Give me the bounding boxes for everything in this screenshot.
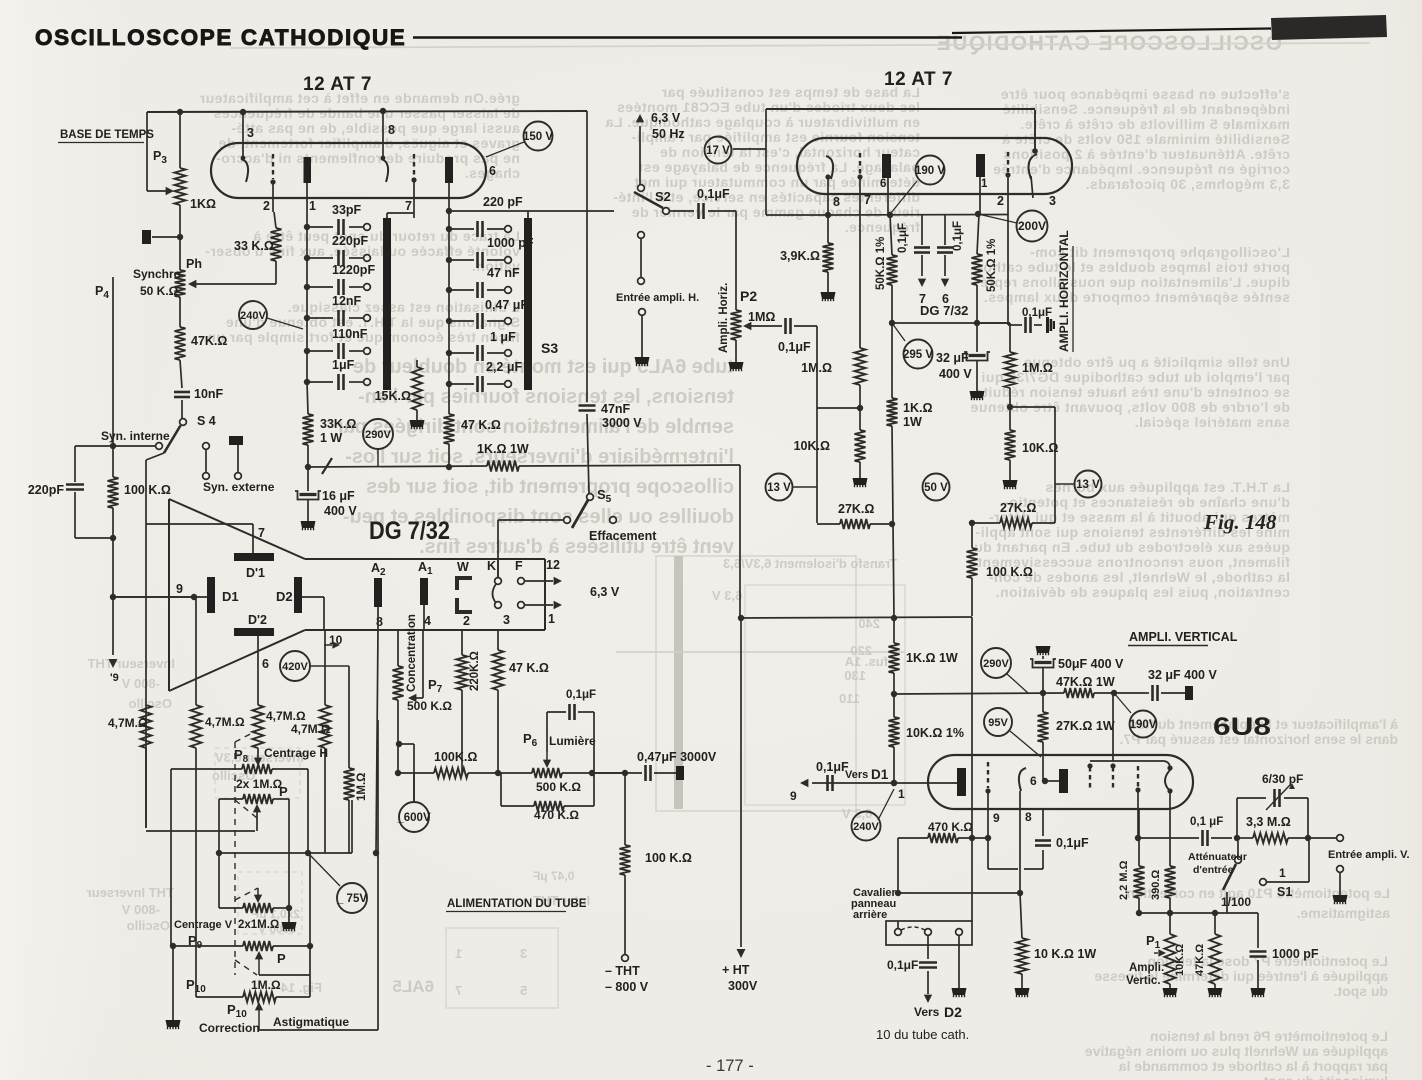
svg-text:DG 7/32: DG 7/32 xyxy=(369,517,450,545)
svg-text:Oscillo: Oscillo xyxy=(127,918,170,933)
svg-text:50K.Ω 1%: 50K.Ω 1% xyxy=(986,239,998,292)
svg-text:1: 1 xyxy=(455,946,462,961)
svg-text:240V: 240V xyxy=(240,310,266,322)
svg-text:3,3 mégohms, 30 picofarads.: 3,3 mégohms, 30 picofarads. xyxy=(1085,176,1290,192)
svg-text:2x 1M.Ω: 2x 1M.Ω xyxy=(236,777,283,791)
svg-text:1W: 1W xyxy=(903,415,922,429)
svg-text:AMPLI. HORIZONTAL: AMPLI. HORIZONTAL xyxy=(1057,230,1071,352)
svg-text:3,9K.Ω: 3,9K.Ω xyxy=(780,249,820,263)
svg-text:0,1μF: 0,1μF xyxy=(697,187,730,201)
svg-text:2: 2 xyxy=(263,199,270,213)
svg-text:4,7M.Ω: 4,7M.Ω xyxy=(266,709,306,723)
svg-text:400 V: 400 V xyxy=(939,367,972,381)
svg-text:13 V: 13 V xyxy=(767,482,791,494)
svg-text:Le potentiomètre P6 rend l: Le potentiomètre P6 rend la tension xyxy=(1150,1028,1388,1044)
svg-text:240V: 240V xyxy=(853,821,879,833)
svg-text:300V: 300V xyxy=(728,979,758,993)
svg-text:cilloscope proprement dit, soi: cilloscope proprement dit, soit sur des xyxy=(366,476,734,498)
svg-text:D'2: D'2 xyxy=(248,613,267,627)
svg-text:-800 V: -800 V xyxy=(121,676,160,691)
svg-text:S1: S1 xyxy=(1277,885,1292,899)
svg-text:0,1μF: 0,1μF xyxy=(566,689,596,701)
svg-text:1μF: 1μF xyxy=(332,358,355,372)
svg-text:6: 6 xyxy=(489,164,496,178)
svg-text:La base de temps est constitué: La base de temps est constituée par xyxy=(661,84,920,100)
svg-text:100 K.Ω: 100 K.Ω xyxy=(124,483,171,497)
svg-text:Syn. interne: Syn. interne xyxy=(101,429,170,443)
svg-text:-800 V: -800 V xyxy=(121,902,160,917)
svg-text:1000 pF: 1000 pF xyxy=(1272,947,1319,961)
svg-text:1220pF: 1220pF xyxy=(332,263,375,277)
svg-text:'9: '9 xyxy=(110,672,119,684)
svg-text:Lumière: Lumière xyxy=(549,734,596,748)
svg-text:+ HT: + HT xyxy=(722,963,750,977)
svg-text:33K.Ω: 33K.Ω xyxy=(320,417,356,431)
svg-text:Vers: Vers xyxy=(845,769,868,781)
svg-text:47 K.Ω: 47 K.Ω xyxy=(509,661,549,675)
svg-text:100K.Ω: 100K.Ω xyxy=(434,750,477,764)
svg-text:ALIMENTATION DU TUBE: ALIMENTATION DU TUBE xyxy=(447,898,587,910)
svg-text:astigmatisme.: astigmatisme. xyxy=(1297,905,1390,921)
svg-text:Astigmatique: Astigmatique xyxy=(273,1015,349,1029)
svg-text:_600V: _600V xyxy=(396,812,431,824)
svg-text:12: 12 xyxy=(546,558,560,572)
svg-text:2,2 μF: 2,2 μF xyxy=(486,360,522,374)
svg-text:corrigé en fréquence. Impéd: corrigé en fréquence. Impédance d'entrée xyxy=(993,161,1290,177)
svg-text:15K.Ω: 15K.Ω xyxy=(375,389,411,403)
svg-text:190 V: 190 V xyxy=(915,165,945,177)
svg-text:110nF: 110nF xyxy=(332,327,368,341)
svg-text:D'1: D'1 xyxy=(246,566,265,580)
svg-text:Centrage V: Centrage V xyxy=(174,919,233,931)
svg-text:du spot.: du spot. xyxy=(1334,983,1388,999)
svg-text:290V: 290V xyxy=(365,429,391,441)
svg-text:6/30 pF: 6/30 pF xyxy=(1262,772,1303,786)
svg-text:220 pF: 220 pF xyxy=(483,195,523,209)
svg-text:Effacement: Effacement xyxy=(589,529,657,543)
svg-text:cateur horizontal, c'est la: cateur horizontal, c'est la tension de xyxy=(660,144,920,160)
svg-text:3: 3 xyxy=(247,126,254,140)
svg-text:- 177 -: - 177 - xyxy=(706,1057,754,1075)
svg-text:luminosité du spot.: luminosité du spot. xyxy=(1260,1073,1388,1080)
svg-text:crête. Atténuateur d'entrée: crête. Atténuateur d'entrée à 2 position… xyxy=(1003,146,1290,162)
svg-text:sans matériel spécial.: sans matériel spécial. xyxy=(1134,414,1290,430)
svg-text:130: 130 xyxy=(844,668,866,683)
svg-text:1: 1 xyxy=(981,178,988,190)
svg-text:27K.Ω: 27K.Ω xyxy=(1000,501,1036,515)
svg-text:1 μF: 1 μF xyxy=(490,330,516,344)
svg-text:13 V: 13 V xyxy=(1076,479,1100,491)
svg-text:_ 75V: _ 75V xyxy=(336,893,367,905)
svg-text:470 K.Ω: 470 K.Ω xyxy=(534,808,579,822)
svg-text:Ph: Ph xyxy=(186,257,202,271)
svg-text:d'entrée: d'entrée xyxy=(1193,864,1234,876)
svg-text:7: 7 xyxy=(455,983,462,998)
svg-text:420V: 420V xyxy=(282,661,308,673)
svg-text:220K.Ω: 220K.Ω xyxy=(469,651,481,691)
svg-text:47nF: 47nF xyxy=(601,402,631,416)
svg-text:1K.Ω: 1K.Ω xyxy=(903,401,932,415)
svg-text:1M.Ω: 1M.Ω xyxy=(356,773,368,801)
svg-text:ne pas produire de ronflements: ne pas produire de ronflements ni d'accr… xyxy=(216,150,520,166)
svg-text:1M.Ω: 1M.Ω xyxy=(1022,361,1053,375)
svg-text:4,7M.Ω: 4,7M.Ω xyxy=(108,716,148,730)
svg-text:10 K.Ω 1W: 10 K.Ω 1W xyxy=(1034,947,1096,961)
svg-text:100 K.Ω: 100 K.Ω xyxy=(645,851,692,865)
svg-text:150 V: 150 V xyxy=(523,131,553,143)
svg-text:1MΩ: 1MΩ xyxy=(748,310,775,324)
svg-text:200V: 200V xyxy=(1018,219,1046,233)
svg-text:10K.Ω: 10K.Ω xyxy=(794,439,830,453)
svg-text:S 4: S 4 xyxy=(197,414,216,428)
svg-text:de laisser passer une bande de: de laisser passer une bande de fréquence… xyxy=(213,105,520,121)
svg-text:D1: D1 xyxy=(222,589,239,604)
svg-text:Correction: Correction xyxy=(199,1021,260,1035)
svg-text:centration, puis les plaque: centration, puis les plaques de déviatio… xyxy=(995,584,1290,600)
svg-text:OSCILLOSCOPE CATHODIQUE: OSCILLOSCOPE CATHODIQUE xyxy=(35,25,406,50)
svg-text:vent être utilisées à d'autres: vent être utilisées à d'autres fins. xyxy=(419,536,734,558)
svg-text:2x1M.Ω: 2x1M.Ω xyxy=(238,919,279,931)
svg-text:1KΩ: 1KΩ xyxy=(190,197,216,211)
svg-text:0,1μF: 0,1μF xyxy=(897,223,909,253)
svg-text:la cathode, le Wehnelt, le: la cathode, le Wehnelt, les anodes de co… xyxy=(988,569,1290,585)
svg-text:BASE DE TEMPS: BASE DE TEMPS xyxy=(60,129,154,141)
svg-text:appliquée au Wehnelt plus ou m: appliquée au Wehnelt plus ou moins négat… xyxy=(1085,1043,1388,1059)
svg-text:W: W xyxy=(457,560,469,574)
svg-text:290V: 290V xyxy=(983,658,1009,670)
svg-text:110: 110 xyxy=(839,691,860,706)
svg-text:32 μF: 32 μF xyxy=(936,351,969,365)
svg-text:47K.Ω 1W: 47K.Ω 1W xyxy=(1056,675,1115,689)
svg-text:8: 8 xyxy=(833,195,840,209)
svg-text:6U8: 6U8 xyxy=(1213,713,1271,741)
svg-text:27K.Ω 1W: 27K.Ω 1W xyxy=(1056,719,1115,733)
svg-text:arrière: arrière xyxy=(853,909,887,921)
svg-text:4,7M.Ω: 4,7M.Ω xyxy=(205,715,245,729)
svg-text:6: 6 xyxy=(1030,774,1037,788)
svg-text:Atténuateur: Atténuateur xyxy=(1188,851,1247,863)
svg-text:Syn. externe: Syn. externe xyxy=(203,480,275,494)
svg-text:50μF 400 V: 50μF 400 V xyxy=(1058,657,1124,671)
svg-text:100 K.Ω: 100 K.Ω xyxy=(986,565,1033,579)
svg-text:balayage. La fréquence de: balayage. La fréquence de balayage est xyxy=(638,159,920,175)
svg-text:Fig. 14: Fig. 14 xyxy=(280,980,322,995)
svg-text:33pF: 33pF xyxy=(332,203,362,217)
svg-text:0,1μF: 0,1μF xyxy=(952,221,964,251)
svg-text:tube 6AL5 qui est monté en dou: tube 6AL5 qui est monté en doubleur de xyxy=(353,356,734,378)
svg-text:47K.Ω: 47K.Ω xyxy=(191,334,227,348)
svg-text:Entrée ampli. V.: Entrée ampli. V. xyxy=(1328,849,1410,861)
svg-text:6AL5: 6AL5 xyxy=(392,977,434,996)
svg-text:17 V: 17 V xyxy=(706,145,730,157)
svg-text:2: 2 xyxy=(997,194,1004,208)
svg-text:9: 9 xyxy=(993,811,1000,825)
svg-text:3: 3 xyxy=(520,946,527,961)
svg-text:0,47 μF: 0,47 μF xyxy=(533,869,574,883)
svg-text:6: 6 xyxy=(262,657,269,671)
svg-text:P: P xyxy=(279,784,288,799)
svg-text:par rapport à la cathode: par rapport à la cathode et commande la xyxy=(1119,1058,1388,1074)
svg-text:10K.Ω 1%: 10K.Ω 1% xyxy=(906,726,964,740)
svg-text:Inverseur THT: Inverseur THT xyxy=(88,656,175,671)
svg-text:500 K.Ω: 500 K.Ω xyxy=(536,780,581,794)
svg-text:0,1μF: 0,1μF xyxy=(1056,836,1089,850)
svg-text:4: 4 xyxy=(424,614,431,628)
svg-text:5: 5 xyxy=(520,983,527,998)
svg-text:10K.Ω: 10K.Ω xyxy=(1022,441,1058,455)
svg-text:4,7M.Ω: 4,7M.Ω xyxy=(291,722,331,736)
svg-text:1: 1 xyxy=(1279,866,1286,880)
svg-text:6: 6 xyxy=(880,178,886,190)
svg-text:12 AT 7: 12 AT 7 xyxy=(303,74,372,95)
svg-text:8: 8 xyxy=(376,615,383,629)
svg-text:12 AT 7: 12 AT 7 xyxy=(884,69,953,90)
svg-text:Signalons que la T.H.T. est ob: Signalons que la T.H.T. est obtenue d'un… xyxy=(225,314,520,330)
svg-text:6,3 V: 6,3 V xyxy=(712,588,743,603)
svg-text:0,1μF: 0,1μF xyxy=(887,958,918,972)
svg-text:Vertic.: Vertic. xyxy=(1126,975,1161,987)
svg-text:Centrage H: Centrage H xyxy=(264,746,328,760)
svg-text:P: P xyxy=(277,951,286,966)
svg-text:190V: 190V xyxy=(1130,719,1157,731)
svg-text:95V: 95V xyxy=(988,717,1008,729)
svg-text:D1: D1 xyxy=(871,767,889,782)
svg-text:porte trois lampes doubles et: porte trois lampes doubles et le tube ca… xyxy=(978,259,1290,275)
svg-text:470 K.Ω: 470 K.Ω xyxy=(928,820,973,834)
svg-text:500 K.Ω: 500 K.Ω xyxy=(407,699,452,713)
svg-text:Une telle simplicité a pu être: Une telle simplicité a pu être obtenue xyxy=(1024,354,1290,370)
svg-text:S3: S3 xyxy=(541,340,558,356)
svg-text:0,1 μF: 0,1 μF xyxy=(1190,816,1223,828)
svg-text:d'une chaîne de résistances: d'une chaîne de résistances et potentio- xyxy=(1004,494,1290,510)
svg-text:50 K.Ω: 50 K.Ω xyxy=(140,284,179,298)
svg-text:32 μF 400 V: 32 μF 400 V xyxy=(1148,668,1217,682)
svg-text:aussi large que possible, de n: aussi large que possible, de ne pas atté… xyxy=(231,120,520,136)
svg-text:Fig. 148: Fig. 148 xyxy=(1203,510,1277,534)
svg-text:220pF: 220pF xyxy=(332,234,368,248)
svg-text:semble de l'alimentation sont: semble de l'alimentation sont dirigées p… xyxy=(336,416,734,438)
svg-text:0,47μF 3000V: 0,47μF 3000V xyxy=(637,750,717,764)
svg-text:3: 3 xyxy=(503,613,510,627)
svg-text:2: 2 xyxy=(463,614,470,628)
svg-text:sentée séparément comporte: sentée séparément comporte deux lampes. xyxy=(983,289,1290,305)
svg-text:dique. L'alimentation que nous: dique. L'alimentation que nous allons re… xyxy=(975,274,1290,290)
svg-text:S2: S2 xyxy=(655,189,671,204)
svg-text:Ampli.: Ampli. xyxy=(1129,962,1164,974)
svg-text:295 V: 295 V xyxy=(903,349,933,361)
svg-text:Vers: Vers xyxy=(914,1005,940,1019)
svg-text:3,3 M.Ω: 3,3 M.Ω xyxy=(1246,815,1291,829)
svg-text:50 V: 50 V xyxy=(924,482,948,494)
svg-text:déterminée par un commutate: déterminée par un commutateur qui met xyxy=(634,174,920,190)
svg-text:s'effectue en basse impédance: s'effectue en basse impédance pour être xyxy=(1000,86,1290,102)
svg-text:7: 7 xyxy=(258,526,265,540)
svg-text:Concentration: Concentration xyxy=(406,614,418,692)
svg-text:10nF: 10nF xyxy=(194,387,224,401)
svg-text:Synchro: Synchro xyxy=(133,267,181,281)
svg-text:7: 7 xyxy=(864,193,871,207)
svg-text:8: 8 xyxy=(1025,810,1032,824)
svg-text:indépendant de la fréquence: indépendant de la fréquence. Sensibilité xyxy=(1002,101,1290,117)
svg-text:tensions, les tensions fournie: tensions, les tensions fournies par l'en… xyxy=(358,386,734,408)
svg-text:– 800 V: – 800 V xyxy=(605,980,649,994)
svg-text:K: K xyxy=(487,559,496,573)
svg-text:3000 V: 3000 V xyxy=(602,416,642,430)
svg-text:maximale 5 millivolts de c: maximale 5 millivolts de crête à crête. xyxy=(1020,116,1290,132)
svg-text:50 Hz: 50 Hz xyxy=(652,127,685,141)
svg-text:1: 1 xyxy=(898,787,905,801)
svg-text:0,47 μF: 0,47 μF xyxy=(485,298,528,312)
svg-text:1 W: 1 W xyxy=(320,431,342,445)
svg-text:quées aux électrodes du tube.: quées aux électrodes du tube. En partant… xyxy=(974,539,1290,555)
svg-text:9: 9 xyxy=(790,789,797,803)
svg-text:6,3 V: 6,3 V xyxy=(651,111,681,125)
svg-text:DG 7/32: DG 7/32 xyxy=(920,303,968,318)
svg-text:1K.Ω 1W: 1K.Ω 1W xyxy=(477,442,529,456)
svg-text:47 nF: 47 nF xyxy=(487,266,520,280)
svg-text:33 K.Ω: 33 K.Ω xyxy=(234,239,274,253)
svg-text:– THT: – THT xyxy=(605,964,640,978)
svg-text:16 μF: 16 μF xyxy=(322,489,355,503)
svg-text:Oscillo: Oscillo xyxy=(129,696,172,711)
svg-text:D2: D2 xyxy=(276,589,293,604)
svg-text:Transfo d'isolement 6,3V/6,3: Transfo d'isolement 6,3V/6,3 xyxy=(723,556,897,571)
svg-text:390.Ω: 390.Ω xyxy=(1150,870,1162,900)
svg-text:Le potentiomètre P10 agit en c: Le potentiomètre P10 agit en correction xyxy=(1126,885,1390,901)
svg-text:Ampli. Horiz.: Ampli. Horiz. xyxy=(718,283,730,353)
svg-text:D2: D2 xyxy=(944,1004,962,1020)
svg-text:7: 7 xyxy=(405,199,412,213)
svg-text:2,2 M.Ω: 2,2 M.Ω xyxy=(1118,860,1130,900)
svg-text:1/100: 1/100 xyxy=(1221,895,1251,909)
svg-text:10K.Ω: 10K.Ω xyxy=(1174,944,1186,976)
svg-text:27K.Ω: 27K.Ω xyxy=(838,502,874,516)
svg-text:47 K.Ω: 47 K.Ω xyxy=(461,418,501,432)
svg-text:fus. 1A: fus. 1A xyxy=(844,654,888,669)
svg-text:1: 1 xyxy=(309,199,316,213)
svg-text:0,1μF: 0,1μF xyxy=(778,340,811,354)
svg-text:THT Inverseur: THT Inverseur xyxy=(87,885,174,900)
svg-text:6,3 V: 6,3 V xyxy=(590,585,620,599)
svg-text:12nF: 12nF xyxy=(332,294,362,308)
svg-text:3: 3 xyxy=(1049,194,1056,208)
svg-text:F: F xyxy=(515,559,523,573)
svg-text:47K.Ω: 47K.Ω xyxy=(1194,944,1206,976)
svg-text:AMPLI. VERTICAL: AMPLI. VERTICAL xyxy=(1129,630,1238,644)
svg-text:10 du tube cath.: 10 du tube cath. xyxy=(876,1027,969,1042)
svg-text:8: 8 xyxy=(388,123,395,137)
svg-text:Entrée ampli. H.: Entrée ampli. H. xyxy=(616,292,699,304)
svg-text:50K.Ω 1%: 50K.Ω 1% xyxy=(875,237,887,290)
svg-text:1K.Ω 1W: 1K.Ω 1W xyxy=(906,651,958,665)
svg-text:9: 9 xyxy=(176,582,183,596)
svg-text:P2: P2 xyxy=(740,288,757,304)
svg-text:220pF: 220pF xyxy=(28,483,64,497)
svg-text:rieur de chaque gamme par: rieur de chaque gamme par le vernier de xyxy=(631,204,920,220)
svg-text:se contente d'une très haute t: se contente d'une très haute tension réd… xyxy=(970,384,1290,400)
svg-text:400 V: 400 V xyxy=(324,504,357,518)
svg-text:1: 1 xyxy=(548,612,555,626)
